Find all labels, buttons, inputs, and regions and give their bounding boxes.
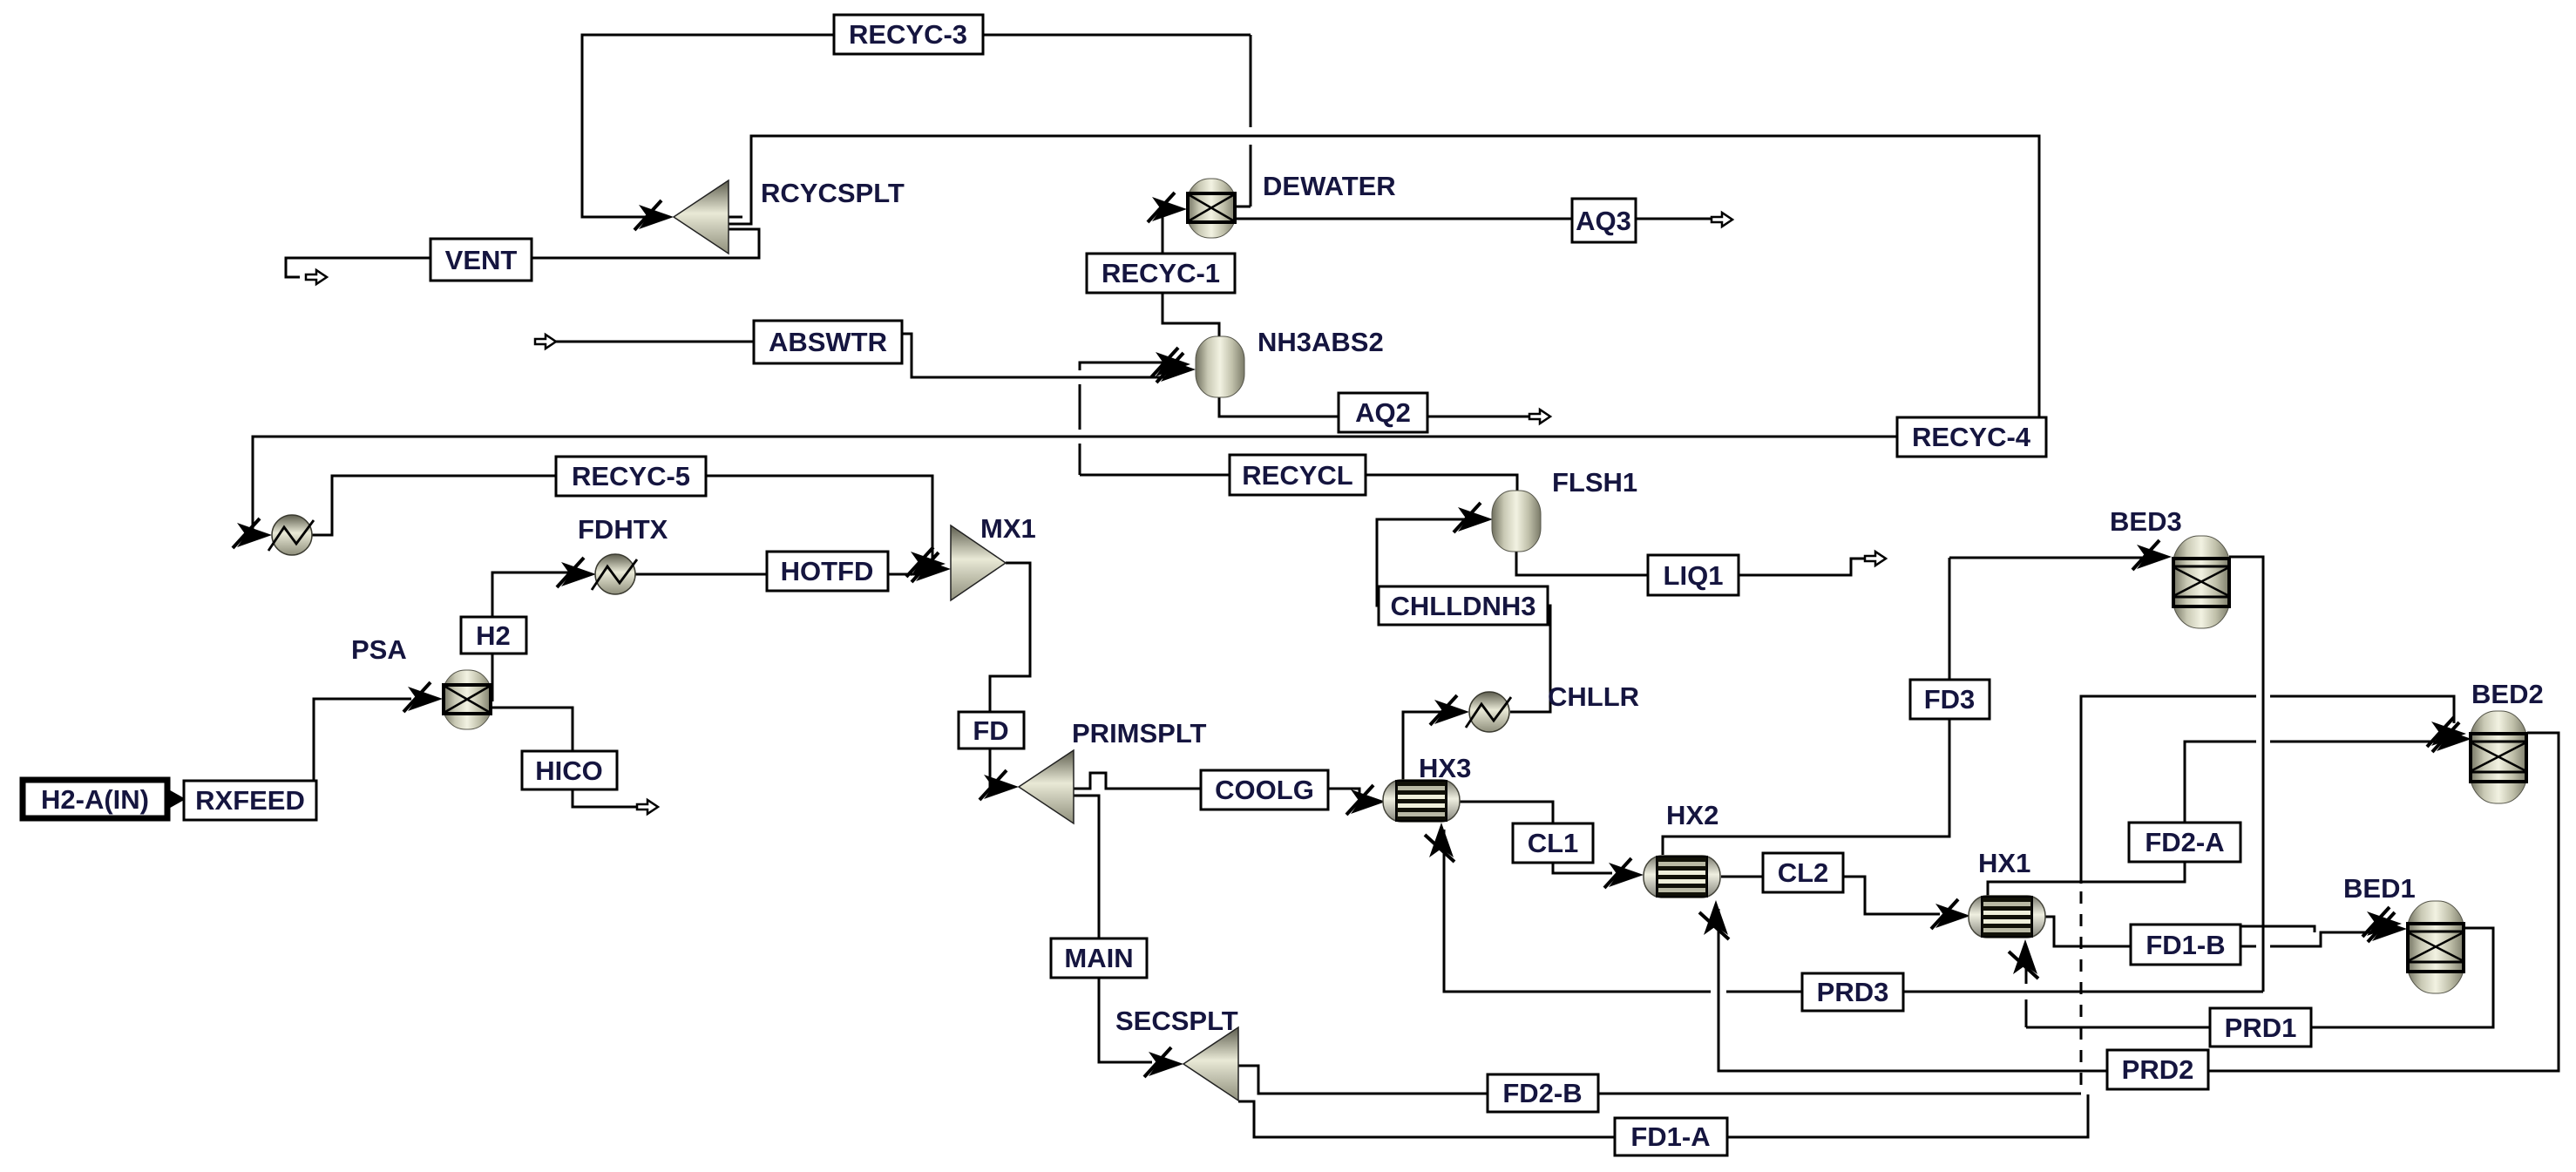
- node stream label FD2-A: [2129, 823, 2240, 862]
- heat exchanger HX2: [1644, 856, 1720, 898]
- node inlet arrow recycle heater: [233, 518, 272, 548]
- node stream label HICO: [522, 751, 617, 789]
- svg-text:CL1: CL1: [1528, 828, 1579, 858]
- svg-text:PRD3: PRD3: [1817, 977, 1889, 1007]
- node stream label FD: [959, 712, 1024, 749]
- wire COOLG: PRIMSPLT out with hop over MAIN to HX3 inlet: [1071, 773, 1365, 802]
- svg-text:RECYC-4: RECYC-4: [1912, 422, 2031, 452]
- svg-text:RECYCL: RECYCL: [1242, 460, 1352, 491]
- node stream label PRD1: [2210, 1008, 2311, 1047]
- svg-text:SECSPLT: SECSPLT: [1115, 1006, 1238, 1036]
- svg-text:BED2: BED2: [2471, 679, 2544, 709]
- wire RECYCL: FLSH1 vapor left and up to NH3ABS2 inlet: [1080, 362, 1517, 491]
- node inlet arrow NH3ABS2 (ABSWTR + RECYCL): [1156, 353, 1196, 383]
- wire RECYC-5: recycle heater out up and right to MX1: [312, 476, 932, 565]
- svg-text:FDHTX: FDHTX: [578, 514, 668, 545]
- svg-text:FD2-B: FD2-B: [1502, 1078, 1582, 1108]
- splitter RCYCSPLT: [674, 180, 729, 254]
- node stream label CL2: [1763, 853, 1843, 892]
- node stream label H2: [461, 617, 526, 654]
- node stream label VENT: [430, 239, 532, 281]
- node inlet arrow FDHTX: [557, 558, 596, 587]
- heat exchanger HX3: [1383, 780, 1460, 822]
- wire CL1: HX3 tube out down to HX2 inlet: [1460, 802, 1612, 873]
- node stream label AQ2: [1339, 393, 1427, 432]
- node inlet arrow SECSPLT: [1144, 1047, 1183, 1077]
- node inlet arrow MX1 (HOTFD + RECYC-5): [912, 552, 951, 582]
- vessel FLSH1: [1492, 491, 1541, 552]
- separator PSA: [443, 670, 491, 729]
- node inlet arrow DEWATER: [1148, 193, 1187, 222]
- node stream label ABSWTR: [754, 321, 902, 363]
- node inlet arrow HX3 shell bottom (PRD3): [1425, 823, 1454, 862]
- svg-text:FD1-B: FD1-B: [2146, 930, 2225, 960]
- splitter SECSPLT: [1183, 1027, 1238, 1101]
- wire FD3: HX2 shell out up through FD3 label to BED3 inlet: [1663, 558, 2142, 855]
- svg-text:MX1: MX1: [980, 513, 1036, 544]
- wire FD2-A: HX1 shell out up through FD2-A label to BED2 inlet: [1988, 742, 2438, 897]
- node stream label PRD2: [2107, 1050, 2208, 1089]
- svg-text:RECYC-3: RECYC-3: [849, 19, 967, 50]
- svg-text:LIQ1: LIQ1: [1664, 560, 1724, 591]
- node stream label MAIN: [1051, 938, 1147, 978]
- wire HICO: PSA bottom product down to open arrow: [492, 708, 637, 807]
- reactor BED3: [2173, 536, 2230, 628]
- node stream label FD2-B: [1488, 1074, 1598, 1112]
- node stream label PRD3: [1802, 973, 1903, 1011]
- node stream label AQ3: [1572, 199, 1636, 242]
- svg-text:CHLLR: CHLLR: [1548, 681, 1639, 712]
- node open arrow VENT outlet: [306, 270, 327, 284]
- svg-text:HX1: HX1: [1978, 848, 2030, 878]
- wire ABSWTR: feed arrow to NH3ABS2 inlet: [556, 334, 1166, 377]
- node stream label CHLLDNH3: [1379, 586, 1548, 625]
- wire PRD1: BED1 out down and left through PRD1 label up to HX1 shell inlet: [2026, 928, 2493, 1027]
- wire AQ2: NH3ABS2 bottoms to open arrow: [1219, 397, 1529, 417]
- node inlet arrow CHLLR: [1430, 695, 1469, 725]
- node inlet arrow PSA: [403, 682, 443, 712]
- node stream label RXFEED: [184, 781, 316, 820]
- node stream label FD1-A: [1615, 1118, 1727, 1155]
- node stream label RECYCL: [1230, 455, 1366, 495]
- node inlet arrow BED1 (FD1-A + FD1-B): [2368, 912, 2407, 942]
- node inlet arrow HX1 shell bottom (PRD1): [2009, 939, 2038, 979]
- svg-text:RXFEED: RXFEED: [195, 785, 305, 816]
- node inlet arrow HX3: [1346, 785, 1386, 815]
- svg-text:FLSH1: FLSH1: [1552, 467, 1637, 498]
- node stream label HOTFD: [767, 552, 888, 591]
- node stream label RECYC-4: [1897, 417, 2046, 457]
- wire CL2: HX2 tube out to HX1 inlet: [1721, 877, 1940, 914]
- svg-text:FD3: FD3: [1924, 684, 1976, 715]
- svg-text:BED1: BED1: [2343, 873, 2416, 904]
- wire RECYC-4: RCYCSPLT out up over to right then down and left to recycle heater: [253, 136, 2039, 532]
- node inlet arrow BED2 (FD2-A + FD2-B): [2432, 722, 2471, 752]
- heater FDHTX: [592, 554, 637, 594]
- wire RXFEED: feed box up to PSA inlet: [314, 699, 411, 781]
- wire RECYC-3: DEWATER top product up/left to RCYCSPLT: [582, 35, 1251, 217]
- node stream label RECYC-1: [1087, 254, 1235, 293]
- wire PRD3: BED3 out down and left through PRD3 label up to HX3 shell inlet: [1444, 557, 2263, 992]
- svg-text:FD2-A: FD2-A: [2145, 827, 2224, 857]
- wire FD1-A: SECSPLT out right then up joining riser toward BED1: [1238, 926, 2315, 1137]
- wire PRD2: BED2 out down and left through PRD2 label up to HX2 shell inlet: [1718, 733, 2559, 1071]
- node inlet arrow HX2 shell bottom (PRD2): [1699, 900, 1729, 939]
- svg-text:H2-A(IN): H2-A(IN): [41, 784, 149, 815]
- node inlet arrow BED3: [2132, 540, 2172, 570]
- reactor BED2: [2470, 711, 2527, 803]
- node inlet arrow HX1: [1931, 899, 1970, 929]
- mixer MX1: [951, 525, 1006, 600]
- svg-text:VENT: VENT: [445, 245, 518, 275]
- svg-text:DEWATER: DEWATER: [1263, 171, 1396, 201]
- heater recycle cooler (RECYC-4 to RECYC-5): [268, 515, 314, 555]
- svg-text:CL2: CL2: [1778, 857, 1829, 888]
- wire FD1-B: HX1 tube out through FD1-B label to BED1 inlet: [2044, 917, 2374, 946]
- node open arrow HICO outlet: [637, 800, 658, 814]
- heat exchanger HX1: [1969, 896, 2045, 938]
- wire FD2-B: SECSPLT out right then up (dashed run) to BED2 inlet: [1238, 696, 2454, 1094]
- wire VENT: RCYCSPLT bottom out to left vent arrow: [286, 229, 759, 277]
- node inlet arrow FLSH1: [1454, 503, 1493, 532]
- node inlet arrow RCYCSPLT: [634, 200, 674, 230]
- wire RECYC-1: NH3ABS2 overhead up to DEWATER inlet: [1163, 209, 1219, 338]
- svg-text:HOTFD: HOTFD: [781, 556, 874, 586]
- svg-text:PRD1: PRD1: [2225, 1013, 2297, 1043]
- wire LIQ1: FLSH1 bottoms to open arrow: [1516, 551, 1867, 575]
- svg-text:FD1-A: FD1-A: [1630, 1121, 1710, 1152]
- node stream label RECYC-5: [556, 457, 706, 496]
- node feed label H2-A(IN) bold box: [23, 780, 167, 818]
- wire FD2-B dashed riser: [2080, 888, 2083, 1085]
- svg-text:HX2: HX2: [1666, 800, 1718, 830]
- node stream label LIQ1: [1648, 555, 1739, 595]
- svg-text:PSA: PSA: [351, 634, 407, 665]
- wire FD: MX1 out down to PRIMSPLT inlet: [990, 563, 1030, 787]
- svg-text:RECYC-1: RECYC-1: [1102, 258, 1220, 288]
- svg-text:PRIMSPLT: PRIMSPLT: [1072, 718, 1206, 749]
- wire CHLLDNH3: CHLLR out up through label to FLSH1 inlet: [1377, 519, 1550, 712]
- svg-text:RECYC-5: RECYC-5: [572, 461, 690, 491]
- node stream label RECYC-3: [834, 15, 983, 54]
- wire AQ3: DEWATER right product to open arrow: [1235, 218, 1712, 220]
- wire MAIN: PRIMSPLT out down to SECSPLT inlet: [1071, 796, 1152, 1062]
- heater CHLLR: [1466, 692, 1511, 732]
- node stream label FD3: [1910, 680, 1990, 719]
- node open arrow AQ3 outlet: [1712, 213, 1732, 227]
- separator DEWATER: [1187, 179, 1236, 238]
- vessel NH3ABS2: [1196, 336, 1244, 397]
- wire HOTFD: FDHTX out to MX1 inlet: [635, 573, 931, 576]
- node open arrow LIQ1 outlet: [1865, 552, 1886, 566]
- svg-text:BED3: BED3: [2110, 506, 2182, 537]
- node inlet arrow PRIMSPLT: [980, 770, 1019, 800]
- node stream label COOLG: [1201, 770, 1328, 810]
- svg-text:MAIN: MAIN: [1064, 943, 1133, 973]
- wire CHLLDNH3 feed: HX3 shell out up to CHLLR inlet: [1403, 712, 1462, 780]
- svg-text:CHLLDNH3: CHLLDNH3: [1390, 591, 1535, 621]
- svg-text:COOLG: COOLG: [1215, 775, 1314, 805]
- svg-text:FD: FD: [973, 715, 1008, 746]
- node stream label FD1-B: [2131, 925, 2240, 965]
- svg-text:HICO: HICO: [535, 755, 603, 786]
- node feed arrow H2-A(IN) to RXFEED: [166, 788, 186, 810]
- wire RCYCSPLT center stub: [729, 216, 742, 219]
- svg-text:RCYCSPLT: RCYCSPLT: [761, 178, 905, 208]
- reactor BED1: [2407, 901, 2464, 993]
- node stream label CL1: [1513, 823, 1593, 863]
- node open arrow ABSWTR source: [535, 335, 556, 349]
- svg-text:AQ2: AQ2: [1355, 397, 1411, 428]
- svg-text:PRD2: PRD2: [2122, 1054, 2194, 1085]
- svg-text:H2: H2: [476, 620, 511, 651]
- node open arrow AQ2 outlet: [1529, 410, 1550, 423]
- node inlet arrow HX2: [1604, 858, 1644, 888]
- svg-text:HX3: HX3: [1419, 753, 1471, 783]
- svg-text:ABSWTR: ABSWTR: [769, 327, 887, 357]
- svg-text:NH3ABS2: NH3ABS2: [1257, 327, 1384, 357]
- splitter PRIMSPLT: [1019, 750, 1074, 823]
- wire H2: PSA top product up through H2 label to FDHTX inlet: [492, 572, 577, 701]
- svg-text:AQ3: AQ3: [1576, 206, 1631, 236]
